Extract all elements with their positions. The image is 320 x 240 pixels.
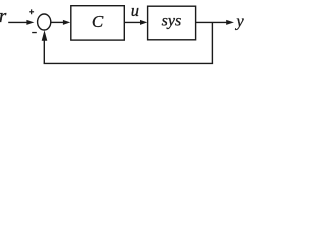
- svg-text:y: y: [234, 11, 244, 30]
- svg-text:u: u: [131, 1, 139, 20]
- svg-text:r: r: [0, 6, 7, 27]
- svg-text:sys: sys: [162, 12, 182, 29]
- svg-text:C: C: [92, 12, 104, 31]
